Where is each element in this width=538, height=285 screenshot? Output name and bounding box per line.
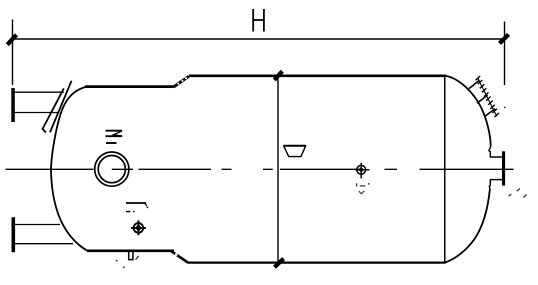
coupling symbol 2 circle	[357, 165, 366, 174]
nozzle right pipe bottom line	[490, 179, 502, 181]
nozzle right label marks	[509, 194, 512, 196]
right head upper arc	[446, 76, 491, 147]
shell bottom line right section	[188, 262, 446, 264]
coupling symbol 1 label marks	[126, 202, 146, 204]
right head nozzle neck top	[489, 147, 491, 158]
inclined nozzle hatch ticks	[476, 76, 499, 117]
coupling symbol 1 center dot	[136, 225, 141, 230]
inclined nozzle rung 3	[485, 109, 495, 117]
nozzle bottom-left flange	[12, 217, 16, 252]
diameter dim arrow bottom	[275, 259, 284, 268]
label M1 rotated	[106, 131, 123, 143]
manhole inner ring	[98, 156, 125, 183]
right head tangent seam line	[444, 77, 446, 263]
nozzle right pipe top line	[490, 156, 502, 158]
coupling symbol 1 circle	[134, 223, 144, 233]
dimension H extension line right	[504, 22, 506, 86]
nozzle top-left slant line B	[50, 81, 72, 133]
diameter dimension line	[277, 77, 279, 262]
label D rotated	[283, 146, 306, 157]
cone transition top	[174, 76, 189, 87]
right head lower arc	[445, 189, 490, 263]
nozzle top-left slant line A	[43, 88, 64, 132]
coupling symbol 2 center dot	[359, 168, 363, 172]
dimension H arrow right	[500, 34, 509, 43]
cone transition bottom	[171, 251, 188, 263]
dimension H arrow left	[7, 35, 16, 45]
inclined nozzle rung 2	[477, 95, 488, 103]
label H	[253, 9, 264, 32]
coupling symbol 1 cross	[131, 220, 146, 235]
nozzle right flange	[502, 151, 505, 185]
nozzle top-left pipe bottom line	[14, 112, 60, 114]
shell top line left section	[85, 85, 174, 88]
inclined nozzle on right head: rung 1	[469, 80, 480, 89]
nozzle top-left pipe top line	[14, 91, 64, 93]
manhole outer ring	[95, 152, 129, 186]
coupling symbol 2 cross	[355, 163, 369, 179]
centerline	[6, 168, 514, 170]
dimension H extension line left	[12, 20, 14, 86]
nozzle bottom-left pipe bottom line	[14, 243, 73, 245]
inclined nozzle hatch spine	[478, 78, 497, 116]
right head nozzle neck bottom	[489, 179, 490, 189]
coupling symbol 2 label marks	[356, 183, 358, 186]
nozzle top-left flange	[11, 88, 15, 122]
drain stub	[129, 252, 133, 260]
shell bottom line left section	[87, 250, 174, 253]
faint marks below drain	[136, 256, 139, 260]
dimension H line	[13, 38, 506, 40]
shell top line right section	[189, 75, 446, 78]
left head	[51, 87, 87, 251]
diameter dim arrow top	[274, 71, 282, 80]
nozzle bottom-left pipe top line	[14, 224, 60, 226]
inclined nozzle dot	[504, 107, 506, 109]
